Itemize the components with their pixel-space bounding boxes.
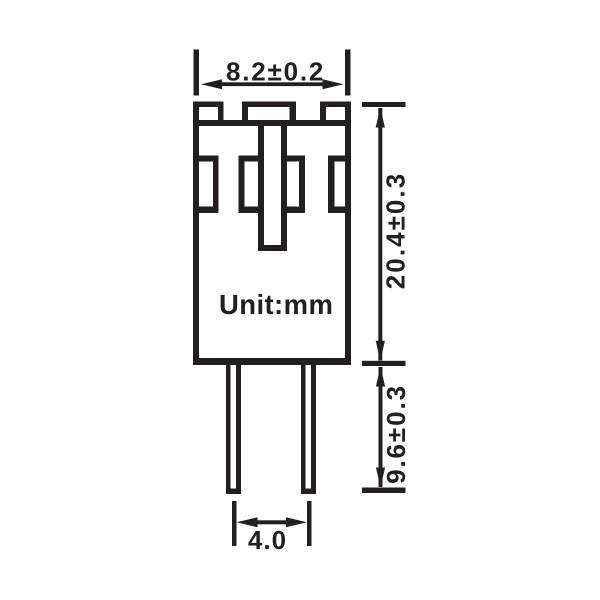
svg-text:9.6±0.3: 9.6±0.3 (381, 384, 411, 484)
svg-text:4.0: 4.0 (248, 525, 287, 555)
svg-text:Unit:mm: Unit:mm (219, 289, 333, 320)
svg-text:8.2±0.2: 8.2±0.2 (226, 56, 325, 86)
svg-text:20.4±0.3: 20.4±0.3 (381, 172, 411, 289)
